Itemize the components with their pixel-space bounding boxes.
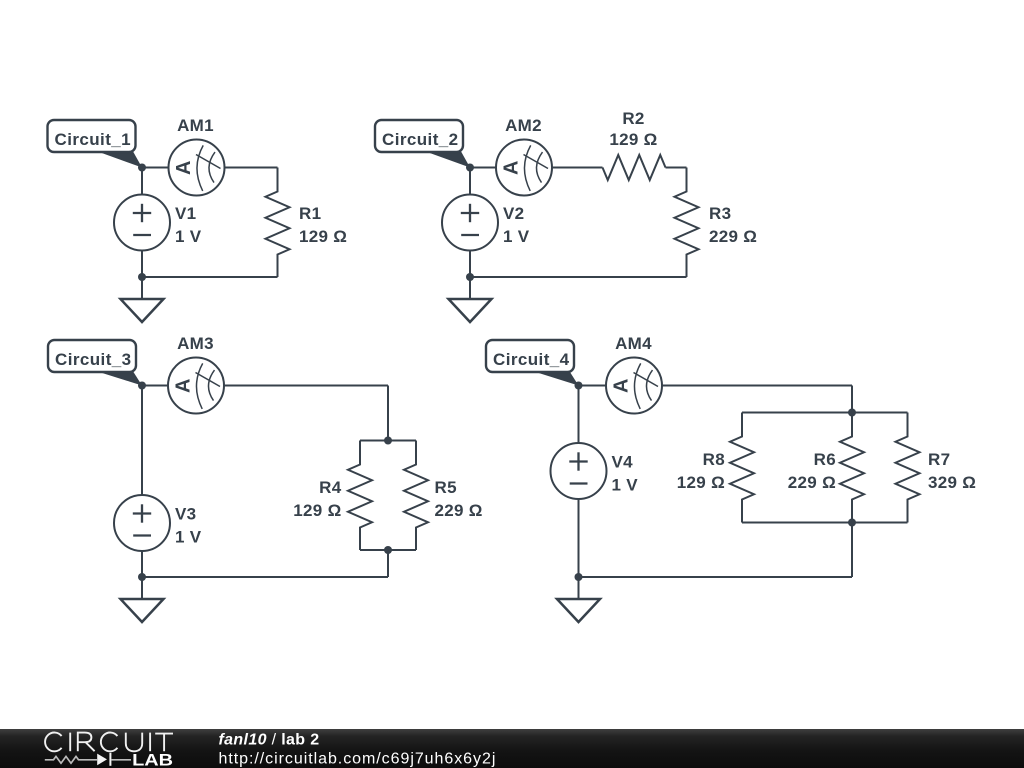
wire bottom circuit4 bbox=[579, 576, 853, 578]
svg-text:Circuit_3: Circuit_3 bbox=[55, 350, 132, 369]
voltage source V1 1 V bbox=[114, 195, 170, 251]
resistor R3 bbox=[675, 168, 699, 278]
net label Circuit_3 bbox=[48, 340, 142, 386]
svg-text:129 Ω: 129 Ω bbox=[609, 130, 657, 149]
wire V1 to gnd node bbox=[141, 251, 143, 278]
resistor R1 bbox=[266, 168, 290, 278]
svg-text:Circuit_1: Circuit_1 bbox=[55, 130, 132, 149]
svg-text:Circuit_2: Circuit_2 bbox=[382, 130, 459, 149]
svg-text:AM3: AM3 bbox=[177, 334, 214, 353]
svg-text:V1: V1 bbox=[175, 204, 196, 223]
wire AM4 to parallel bank bbox=[662, 385, 852, 387]
svg-text:AM2: AM2 bbox=[505, 116, 542, 135]
wire bank bottom bar bbox=[742, 522, 908, 524]
ammeter AM4 bbox=[606, 358, 662, 414]
wire node2 to AM2 bbox=[470, 167, 496, 169]
net label Circuit_2 bbox=[375, 120, 470, 168]
svg-text:R5: R5 bbox=[435, 478, 457, 497]
node N1 top bbox=[138, 164, 146, 172]
wire R4R5 to bottom bbox=[387, 550, 389, 577]
resistor R7 bbox=[896, 413, 920, 523]
ammeter AM2 bbox=[496, 140, 552, 196]
CircuitLab logo resistor-diode glyph bbox=[45, 756, 97, 763]
svg-text:229 Ω: 229 Ω bbox=[788, 473, 836, 492]
svg-text:LAB: LAB bbox=[132, 752, 173, 768]
wire node4 to AM4 bbox=[579, 385, 607, 387]
voltage source V3 1 V bbox=[114, 495, 170, 551]
svg-text:R1: R1 bbox=[299, 204, 321, 223]
svg-text:A: A bbox=[173, 379, 195, 393]
wire R4R5 bottom bar bbox=[360, 549, 416, 551]
svg-text:129 Ω: 129 Ω bbox=[299, 227, 347, 246]
node N3 R4R5 top junction bbox=[384, 437, 392, 445]
node N3 top bbox=[138, 382, 146, 390]
wire node2 to V2 bbox=[469, 168, 471, 195]
node N4 bank top junction bbox=[848, 409, 856, 417]
wire R2 to R3 bbox=[666, 167, 687, 169]
svg-text:R7: R7 bbox=[928, 450, 950, 469]
svg-text:Circuit_4: Circuit_4 bbox=[493, 350, 570, 369]
svg-text:V4: V4 bbox=[612, 453, 634, 472]
wire bottom circuit2 bbox=[470, 276, 687, 278]
svg-text:AM1: AM1 bbox=[177, 116, 214, 135]
svg-text:129 Ω: 129 Ω bbox=[293, 501, 341, 520]
svg-text:129 Ω: 129 Ω bbox=[677, 473, 725, 492]
wire bank to bottom bbox=[851, 523, 853, 578]
wire node3 to AM3 bbox=[142, 385, 168, 387]
svg-text:A: A bbox=[173, 161, 195, 175]
svg-text:R6: R6 bbox=[814, 450, 836, 469]
svg-text:229 Ω: 229 Ω bbox=[709, 227, 757, 246]
net label Circuit_1 bbox=[48, 120, 143, 168]
node N4 top bbox=[575, 382, 583, 390]
svg-text:V3: V3 bbox=[175, 505, 196, 524]
node N2 bottom bbox=[466, 273, 474, 281]
wire AM2 to R2 bbox=[552, 167, 603, 169]
svg-text:fanl10 / lab 2: fanl10 / lab 2 bbox=[219, 732, 320, 749]
svg-text:R4: R4 bbox=[319, 478, 342, 497]
wire R4R5 top bar bbox=[360, 440, 416, 442]
svg-text:A: A bbox=[611, 379, 633, 393]
node N2 top bbox=[466, 164, 474, 172]
ground bbox=[557, 577, 600, 622]
svg-text:R3: R3 bbox=[709, 204, 731, 223]
node N3 R4R5 bottom junction bbox=[384, 546, 392, 554]
wire bank top bar bbox=[742, 412, 908, 414]
node N3 bottom bbox=[138, 573, 146, 581]
ground bbox=[121, 277, 164, 322]
CircuitLab logo CIRCUIT (thin outline letters) bbox=[45, 733, 173, 752]
wire down to R4R5 top bbox=[387, 386, 389, 441]
svg-text:1 V: 1 V bbox=[612, 476, 639, 495]
net label Circuit_4 bbox=[486, 340, 579, 386]
wire node1 to V1 bbox=[141, 168, 143, 195]
svg-text:A: A bbox=[501, 161, 523, 175]
svg-text:1 V: 1 V bbox=[175, 528, 202, 547]
wire bottom circuit3 bbox=[142, 576, 388, 578]
wire V3 to gnd node bbox=[141, 551, 143, 577]
svg-text:http://circuitlab.com/c69j7uh6: http://circuitlab.com/c69j7uh6x6y2j bbox=[219, 751, 497, 768]
ammeter AM1 bbox=[169, 140, 225, 196]
svg-text:1 V: 1 V bbox=[175, 227, 202, 246]
wire V2 to gnd node bbox=[469, 251, 471, 278]
wire V4 to gnd node bbox=[578, 499, 580, 577]
svg-text:V2: V2 bbox=[503, 204, 524, 223]
wire node3 to V3 bbox=[141, 386, 143, 496]
svg-text:229 Ω: 229 Ω bbox=[435, 501, 483, 520]
node N1 bottom bbox=[138, 273, 146, 281]
ground bbox=[449, 277, 492, 322]
resistor R2 bbox=[603, 155, 666, 180]
ammeter AM3 bbox=[168, 358, 224, 414]
resistor R8 bbox=[730, 413, 754, 523]
wire node4 to V4 bbox=[578, 386, 580, 444]
resistor R6 bbox=[840, 413, 864, 523]
wire node1 to AM1 bbox=[142, 167, 169, 169]
wire AM3 to parallel pair bbox=[224, 385, 388, 387]
resistor R4 bbox=[348, 441, 372, 551]
wire down to bank top bbox=[851, 386, 853, 413]
svg-text:1 V: 1 V bbox=[503, 227, 530, 246]
voltage source V4 1 V bbox=[551, 443, 607, 499]
svg-text:R8: R8 bbox=[703, 450, 725, 469]
node N4 bank bottom junction bbox=[848, 519, 856, 527]
voltage source V2 1 V bbox=[442, 195, 498, 251]
wire AM1 to R1 bbox=[225, 167, 278, 169]
svg-text:R2: R2 bbox=[622, 109, 644, 128]
svg-text:AM4: AM4 bbox=[615, 334, 652, 353]
node N4 bottom bbox=[575, 573, 583, 581]
svg-text:329 Ω: 329 Ω bbox=[928, 473, 976, 492]
resistor R5 bbox=[404, 441, 428, 551]
ground bbox=[121, 577, 164, 622]
wire bottom circuit1 bbox=[142, 276, 278, 278]
